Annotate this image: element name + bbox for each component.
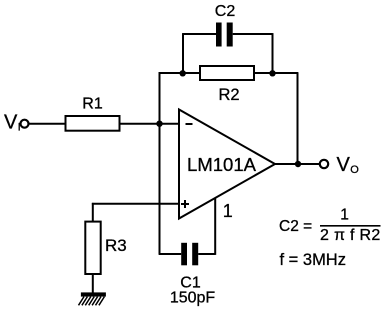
wire R1 to inverting node (121, 123, 180, 125)
svg-text:O: O (350, 164, 359, 176)
svg-text:150pF: 150pF (170, 289, 216, 306)
capacitor C2 (216, 23, 233, 47)
node output junction (295, 161, 301, 167)
formula C2 equation (279, 207, 381, 244)
svg-text:C2: C2 (215, 3, 236, 20)
svg-text:1: 1 (223, 201, 233, 221)
svg-text:V: V (4, 111, 18, 133)
svg-text:C2 =: C2 = (279, 218, 312, 235)
input terminal VI (21, 120, 29, 128)
wire C2 top left (182, 33, 216, 35)
plus input symbol (181, 200, 189, 208)
wire feedback row left horizontal (159, 72, 200, 74)
node R2 right junction (269, 70, 275, 76)
wire inverting node down to C1 (159, 124, 161, 254)
svg-text:R2: R2 (218, 86, 239, 104)
svg-text:V: V (337, 154, 351, 176)
wire inverting node up to feedback row (159, 72, 161, 124)
wire C2 top right (233, 33, 273, 35)
svg-text:2 π f R2: 2 π f R2 (320, 227, 381, 244)
node inverting input junction (156, 121, 162, 127)
wire plus input row (92, 203, 179, 205)
resistor R3 (85, 222, 100, 274)
svg-text:I: I (18, 122, 21, 134)
wire R3 to ground (92, 274, 94, 293)
label VI (4, 111, 21, 133)
wire C1 right horizontal (198, 253, 215, 255)
svg-text:1: 1 (340, 207, 349, 224)
wire feedback right vertical down (297, 73, 299, 164)
wire down to R3 (92, 203, 94, 221)
minus input symbol (186, 123, 193, 125)
op-amp U1 LM101A (179, 110, 275, 219)
label VO (337, 154, 360, 176)
resistor R1 (66, 116, 120, 131)
svg-text:LM101A: LM101A (187, 154, 257, 175)
svg-text:R3: R3 (105, 236, 127, 255)
wire VI to R1 (29, 123, 65, 125)
svg-text:f = 3MHz: f = 3MHz (280, 251, 346, 269)
wire C2 right vertical (272, 33, 274, 73)
ground (79, 292, 106, 305)
wire C1 left horizontal (159, 253, 182, 255)
svg-text:R1: R1 (82, 95, 103, 112)
wire R2 right to corner (254, 72, 298, 74)
node R2 left junction (180, 70, 186, 76)
resistor R2 (200, 66, 254, 80)
output terminal VO (320, 160, 328, 168)
wire output (274, 163, 320, 165)
capacitor C1 (181, 243, 198, 265)
wire C2 left vertical (182, 34, 184, 73)
wire pin 1 vertical (214, 198, 216, 255)
